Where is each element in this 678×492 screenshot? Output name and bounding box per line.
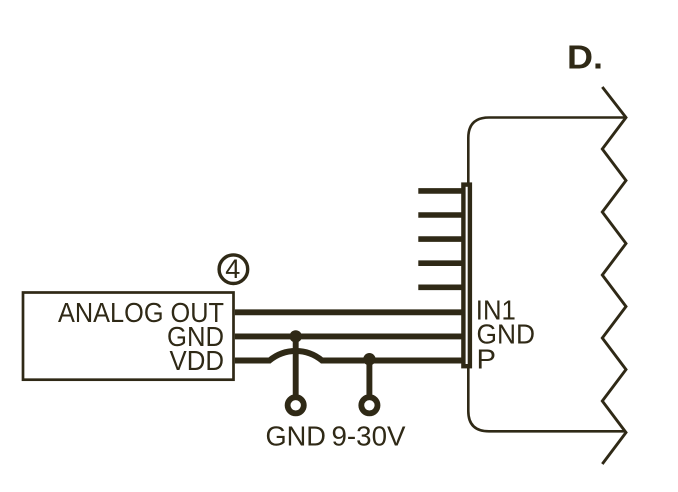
svg-text:4: 4 [225, 254, 240, 284]
svg-text:9-30V: 9-30V [332, 420, 407, 451]
svg-text:VDD: VDD [170, 345, 225, 376]
svg-text:GND: GND [265, 420, 326, 451]
svg-text:D.: D. [567, 40, 603, 77]
svg-text:P: P [477, 343, 497, 374]
